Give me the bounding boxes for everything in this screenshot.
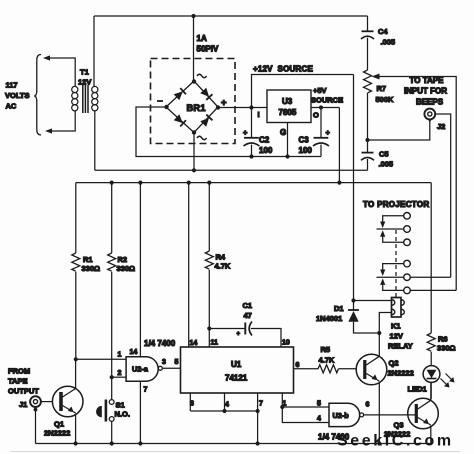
117 VOLTS AC brace bbox=[34, 55, 41, 136]
svg-text:4: 4 bbox=[225, 402, 229, 409]
svg-text:R7: R7 bbox=[377, 84, 387, 93]
svg-text:50PIV: 50PIV bbox=[197, 45, 219, 54]
svg-text:O: O bbox=[313, 111, 319, 120]
label ~ bottom bbox=[197, 136, 207, 139]
wire: U2a pin7 ground bbox=[139, 381, 141, 443]
svg-text:+5V: +5V bbox=[313, 86, 327, 95]
node: G on ground rail bbox=[285, 154, 289, 158]
wire: Q3 collector up to LED bbox=[430, 382, 432, 400]
relay coil K1 bbox=[392, 298, 402, 318]
svg-text:500K: 500K bbox=[376, 95, 395, 104]
primary coil bbox=[72, 86, 78, 92]
svg-text:7: 7 bbox=[144, 387, 148, 394]
wire: secondary bottom down bbox=[94, 111, 96, 171]
wire: U2a output to U1 pin5 bbox=[162, 367, 180, 369]
svg-text:.005: .005 bbox=[381, 38, 396, 47]
node: U1 pin7 bbox=[256, 441, 260, 445]
svg-text:T1: T1 bbox=[80, 68, 89, 77]
diode bottom-left arm bbox=[174, 114, 186, 126]
svg-text:7805: 7805 bbox=[279, 108, 297, 117]
svg-text:6: 6 bbox=[366, 402, 370, 409]
wire: Q2 collector up bbox=[378, 333, 380, 357]
one-shot U1 74121 bbox=[181, 347, 294, 393]
svg-text:330Ω: 330Ω bbox=[82, 264, 101, 273]
wire: U3 ground pin bbox=[287, 123, 289, 157]
svg-text:C1: C1 bbox=[243, 301, 253, 310]
svg-text:5: 5 bbox=[317, 401, 321, 408]
pushbutton S1 bbox=[111, 377, 113, 400]
diode D1 bbox=[353, 301, 355, 310]
svg-text:C3: C3 bbox=[299, 136, 310, 145]
svg-text:100: 100 bbox=[299, 146, 313, 155]
wire: arrow line from +12V loop to R7 top bbox=[376, 77, 456, 291]
svg-text:U3: U3 bbox=[282, 97, 293, 106]
wire: U1 pin 14 supply bbox=[188, 183, 190, 347]
svg-text:S1: S1 bbox=[116, 401, 125, 410]
wire: U1 pin4 bbox=[224, 393, 226, 411]
svg-text:5: 5 bbox=[175, 359, 179, 366]
wire: U1 pin1 to U2b bbox=[281, 393, 283, 407]
+5V bus bbox=[76, 182, 431, 184]
svg-text:+: + bbox=[243, 128, 248, 137]
wire: primary top with arrow bbox=[46, 58, 75, 87]
svg-text:12V: 12V bbox=[78, 78, 91, 87]
wire: U1 pin6 output bbox=[294, 368, 319, 370]
svg-text:R2: R2 bbox=[118, 255, 128, 264]
svg-text:330Ω: 330Ω bbox=[117, 264, 136, 273]
wire: bridge bottom to AC line bbox=[193, 133, 195, 171]
svg-text:R1: R1 bbox=[83, 255, 93, 264]
svg-text:U2-b: U2-b bbox=[333, 411, 350, 420]
wire: U1 pin3-4-7 link bbox=[190, 410, 257, 412]
svg-text:I: I bbox=[258, 110, 260, 119]
jack J1 bbox=[30, 396, 41, 407]
svg-text:330Ω: 330Ω bbox=[437, 344, 456, 353]
node: R4 / C1 / U1 pin11 bbox=[207, 326, 211, 330]
wire: Q1 emitter down bbox=[75, 415, 77, 444]
svg-text:47: 47 bbox=[244, 311, 252, 320]
mechanical link dashed bbox=[395, 230, 397, 297]
wire: J2 bottom to R7 node bbox=[368, 121, 430, 140]
node: +12V / C2 / U3 input bbox=[249, 105, 253, 109]
capacitor C5 bbox=[367, 140, 369, 152]
wire: primary bottom with arrow bbox=[48, 111, 75, 132]
node: pin7 junction bbox=[256, 409, 260, 413]
node: U1 pin14 top bbox=[187, 181, 191, 185]
svg-text:BEEPS: BEEPS bbox=[416, 98, 444, 107]
node: S1 bottom bbox=[110, 441, 114, 445]
svg-text:J1: J1 bbox=[19, 400, 27, 409]
svg-text:C2: C2 bbox=[259, 136, 270, 145]
svg-text:.005: .005 bbox=[379, 160, 394, 169]
wire: K1 bottom to Q2 collector node bbox=[379, 313, 391, 334]
svg-text:G: G bbox=[280, 128, 286, 137]
label minus bbox=[157, 100, 163, 102]
svg-text:OUTPUT: OUTPUT bbox=[8, 387, 39, 396]
resistor R5 bbox=[318, 365, 338, 373]
transistor Q2 bbox=[356, 354, 387, 385]
svg-text:7: 7 bbox=[259, 401, 263, 408]
svg-text:+: + bbox=[237, 332, 241, 338]
wire: Q2 emitter down bbox=[378, 383, 380, 444]
NAND gate U2-b bbox=[329, 403, 360, 426]
LED1 emission arrows bbox=[441, 379, 448, 386]
svg-text:U1: U1 bbox=[231, 360, 242, 369]
svg-text:N.O.: N.O. bbox=[115, 410, 130, 419]
diode top-right arm bbox=[200, 88, 212, 100]
node: R7/C5/J2 junction bbox=[365, 138, 369, 142]
relay contact upper group bbox=[377, 213, 411, 246]
wire: R7 bottom to node bbox=[367, 93, 369, 140]
svg-text:R5: R5 bbox=[321, 345, 331, 354]
svg-text:100: 100 bbox=[259, 146, 273, 155]
svg-text:10: 10 bbox=[282, 340, 290, 347]
wire: bridge plus to U3 input bbox=[218, 107, 267, 109]
wire: U2b output to Q3 base bbox=[364, 414, 417, 416]
wire: U2b pin5 input bbox=[282, 406, 329, 408]
wire: U1 pin3 bbox=[189, 393, 191, 411]
svg-text:R6: R6 bbox=[438, 335, 448, 344]
diode top-left arm bbox=[174, 88, 186, 100]
wire: U2b pin4 input bbox=[282, 407, 329, 423]
wire: bridge top feed bbox=[193, 16, 195, 81]
label ~ top bbox=[197, 74, 207, 77]
node: R4 top bbox=[207, 181, 211, 185]
bridge BR1 diamond bbox=[166, 81, 218, 133]
node: bridge right vertex bbox=[216, 105, 220, 109]
capacitor C3 bbox=[320, 108, 322, 138]
node: Q1 emitter bbox=[74, 441, 78, 445]
svg-text:TO TAPE: TO TAPE bbox=[410, 76, 445, 85]
node: bridge left vertex bbox=[164, 105, 168, 109]
transformer T1 bbox=[72, 85, 98, 113]
node: Q2 emitter bbox=[377, 441, 381, 445]
svg-text:LED1: LED1 bbox=[408, 385, 427, 394]
wire: +12V source line bbox=[252, 75, 354, 108]
transistor Q1 bbox=[52, 386, 83, 417]
svg-text:K1: K1 bbox=[391, 322, 401, 331]
relay contact lower group bbox=[377, 260, 457, 293]
wire: bridge minus route to ground rail bbox=[136, 107, 321, 157]
node: U2a pin14 top bbox=[138, 181, 142, 185]
resistor R7 bbox=[364, 70, 372, 93]
node: +5V feed bbox=[337, 181, 341, 185]
svg-text:Q3: Q3 bbox=[394, 421, 404, 430]
svg-text:1: 1 bbox=[118, 352, 122, 359]
wire: bus to R6 bbox=[430, 183, 432, 333]
svg-text:4.7K: 4.7K bbox=[215, 262, 231, 271]
node: C2 on ground rail bbox=[249, 154, 253, 158]
node: top rail / bridge top junction bbox=[191, 14, 195, 18]
svg-text:FROM: FROM bbox=[8, 367, 30, 376]
node: D1 / K1 / Q2 collector bbox=[377, 331, 381, 335]
svg-text:TO PROJECTOR: TO PROJECTOR bbox=[363, 200, 429, 209]
svg-text:J2: J2 bbox=[437, 122, 445, 131]
capacitor C4 bbox=[367, 16, 369, 31]
wire: to K1 top bbox=[354, 300, 392, 302]
svg-text:TAPE: TAPE bbox=[8, 377, 27, 386]
node: bridge bottom vertex bbox=[192, 130, 196, 134]
svg-text:11: 11 bbox=[211, 340, 219, 347]
node: +12V / D1 / K1 top bbox=[351, 298, 355, 302]
wire: top AC rail bbox=[94, 15, 368, 17]
node: pin4 junction bbox=[222, 409, 226, 413]
node: R2 / S1 / U2a pin2 bbox=[110, 375, 114, 379]
resistor R1 bbox=[75, 183, 77, 253]
resistor R2 bbox=[111, 183, 113, 253]
LED1 bbox=[423, 366, 440, 383]
node: C3 top junction bbox=[319, 105, 323, 109]
svg-text:1N4001: 1N4001 bbox=[316, 314, 342, 323]
svg-text:4: 4 bbox=[317, 416, 321, 423]
svg-text:117: 117 bbox=[6, 81, 18, 90]
wire: +12V drop to relay bbox=[353, 75, 355, 301]
svg-text:3: 3 bbox=[162, 359, 166, 366]
svg-text:R4: R4 bbox=[216, 253, 226, 262]
jack J2 bbox=[424, 109, 435, 120]
svg-text:14: 14 bbox=[190, 340, 198, 347]
bridge rectifier BR1 dashed box bbox=[151, 59, 236, 144]
svg-text:14: 14 bbox=[130, 349, 138, 356]
svg-text:Q2: Q2 bbox=[389, 359, 399, 368]
node: bridge top vertex bbox=[192, 79, 196, 83]
core bbox=[83, 85, 88, 113]
svg-text:1/4 7400: 1/4 7400 bbox=[144, 339, 176, 348]
svg-text:+: + bbox=[326, 128, 331, 137]
wire: Q3 emitter down bbox=[430, 427, 432, 444]
ground bus bbox=[36, 443, 432, 445]
node: U2a pin7 bbox=[138, 441, 142, 445]
node: R1 / Q1 collector / U2a pin1 bbox=[74, 357, 78, 361]
svg-text:1A: 1A bbox=[197, 34, 207, 43]
svg-text:VOLTS: VOLTS bbox=[5, 91, 29, 100]
svg-text:12V: 12V bbox=[390, 332, 403, 341]
svg-text:BR1: BR1 bbox=[187, 103, 206, 113]
secondary coil bbox=[92, 86, 98, 92]
svg-text:AC: AC bbox=[6, 102, 17, 111]
svg-text:SOURCE: SOURCE bbox=[311, 96, 343, 105]
svg-text:2N2222: 2N2222 bbox=[44, 429, 70, 438]
resistor R6 bbox=[427, 333, 435, 351]
resistor R4 bbox=[208, 183, 210, 251]
wire: U2a pin2 input bbox=[112, 376, 126, 378]
NAND gate U2-a bbox=[126, 357, 158, 381]
svg-text:2N2222: 2N2222 bbox=[388, 369, 414, 378]
wire: U1 pin7 ground bbox=[257, 393, 259, 444]
svg-text:4.7K: 4.7K bbox=[319, 356, 335, 365]
wire: U3 output +5V bbox=[311, 107, 339, 109]
svg-text:6: 6 bbox=[296, 362, 300, 369]
svg-text:SeekIC.com: SeekIC.com bbox=[337, 433, 454, 450]
wire: +5V drop to bus bbox=[338, 108, 340, 183]
svg-text:U2-a: U2-a bbox=[132, 365, 149, 374]
node: bridge bottom on AC line bbox=[192, 168, 196, 172]
svg-text:2: 2 bbox=[118, 370, 122, 377]
svg-text:+: + bbox=[221, 98, 227, 109]
svg-text:74121: 74121 bbox=[225, 374, 248, 383]
svg-text:RELAY: RELAY bbox=[388, 342, 413, 351]
wire: Q1 collector up bbox=[75, 359, 77, 389]
capacitor C2 bbox=[251, 108, 253, 138]
svg-text:C4: C4 bbox=[378, 27, 388, 36]
svg-text:INPUT FOR: INPUT FOR bbox=[404, 87, 447, 96]
svg-text:Q1: Q1 bbox=[54, 420, 64, 429]
regulator U3 7805 bbox=[267, 90, 311, 123]
wire: secondary top down bbox=[93, 16, 95, 87]
diode bottom-right arm bbox=[200, 115, 212, 127]
wire: AC bottom line to C5 bbox=[95, 169, 368, 171]
svg-text:+12V SOURCE: +12V SOURCE bbox=[253, 65, 313, 74]
node: R2 top bbox=[110, 181, 114, 185]
wire: U2a pin1 input bbox=[76, 358, 126, 360]
wire: J2 tip to contacts bbox=[435, 114, 451, 277]
wire: U2a pin 14 supply bbox=[139, 183, 141, 357]
capacitor C1 bbox=[209, 328, 245, 330]
transistor Q3 bbox=[408, 398, 439, 429]
node: pin1 junction bbox=[280, 405, 284, 409]
svg-text:C5: C5 bbox=[379, 150, 389, 159]
svg-text:D1: D1 bbox=[334, 304, 344, 313]
